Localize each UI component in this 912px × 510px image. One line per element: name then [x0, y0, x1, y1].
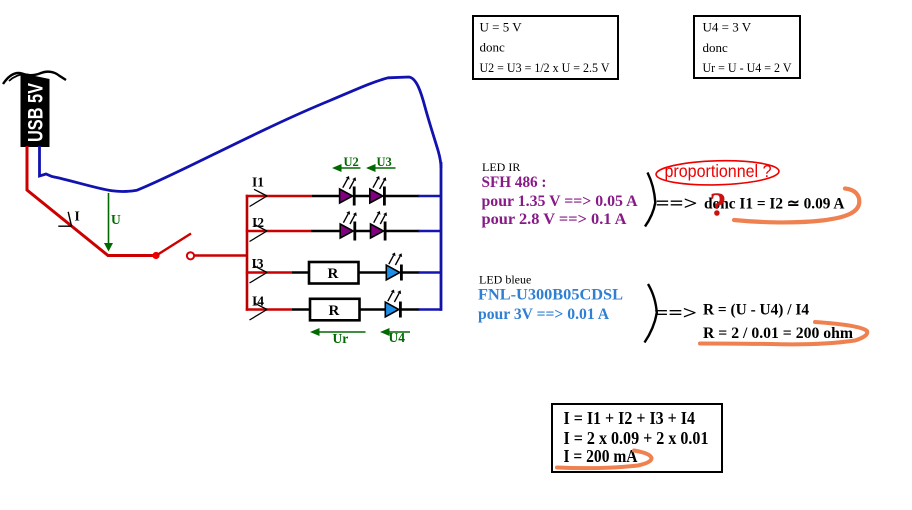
wire red from USB plug — [27, 146, 157, 256]
wire red branch I2 — [246, 230, 311, 232]
svg-text:Ur = U - U4 = 2 V: Ur = U - U4 = 2 V — [703, 60, 793, 75]
orange swoosh I1I2 — [734, 189, 859, 223]
svg-text:R: R — [328, 266, 339, 282]
svg-text:pour 2.8 V ==> 0.1 A: pour 2.8 V ==> 0.1 A — [482, 211, 627, 228]
svg-text:I1: I1 — [252, 175, 264, 190]
svg-text:U2 = U3 = 1/2 x U = 2.5 V: U2 = U3 = 1/2 x U = 2.5 V — [480, 60, 611, 75]
current arrow I1 — [250, 189, 268, 206]
wire black R2 to LED — [360, 308, 388, 310]
svg-text:proportionnel ?: proportionnel ? — [665, 161, 772, 181]
voltage arrow U2 — [332, 164, 361, 172]
svg-text:==>: ==> — [656, 194, 698, 215]
wire black after LED I3 — [403, 271, 420, 273]
svg-text:USB 5V: USB 5V — [25, 83, 48, 142]
wire black after LEDs I2 — [385, 230, 420, 232]
wire black after LED I4 — [402, 308, 420, 310]
switch closed contact dot — [152, 252, 159, 259]
svg-text:LED bleue: LED bleue — [479, 273, 531, 287]
current arrow I2 — [250, 224, 268, 241]
note box U=5V — [473, 16, 618, 79]
current arrow I — [58, 212, 71, 226]
wire red switch to bus — [195, 254, 249, 257]
LED IR D4 — [371, 211, 388, 241]
svg-text:donc: donc — [480, 40, 506, 55]
LED IR D1 — [340, 176, 357, 206]
wire black R1 to LED — [359, 271, 388, 273]
svg-text:R = 2 / 0.01 = 200 ohm: R = 2 / 0.01 = 200 ohm — [703, 325, 854, 342]
wire blue right I3 — [419, 271, 443, 273]
wire blue right I2 — [419, 230, 443, 232]
svg-text:SFH 486 :: SFH 486 : — [482, 174, 547, 191]
resistor R1 — [309, 262, 359, 284]
wire black branch I2 — [311, 230, 341, 232]
LED bleue D5 — [386, 253, 403, 281]
result box I total — [552, 404, 722, 472]
wire red branch I3 — [246, 271, 292, 273]
wire blue right I4 — [419, 308, 443, 310]
brace bleue — [645, 284, 657, 343]
svg-text:I = 200 mA: I = 200 mA — [564, 446, 638, 466]
usb cable sketch — [3, 72, 66, 84]
voltage arrow U — [104, 193, 113, 252]
svg-text:U2: U2 — [344, 155, 359, 169]
LED IR D3 — [340, 211, 357, 241]
svg-text:donc: donc — [703, 40, 729, 55]
resistor R2 — [310, 299, 360, 321]
wire black between LEDs I2 — [355, 230, 372, 232]
svg-text:I = I1 + I2 + I3 + I4: I = I1 + I2 + I3 + I4 — [564, 408, 696, 428]
wire red branch I1 — [246, 195, 312, 197]
svg-text:I: I — [75, 209, 80, 224]
wire black between LEDs I1 — [354, 195, 372, 197]
note box U4=3V — [694, 16, 800, 78]
svg-text:==>: ==> — [654, 303, 697, 324]
wire black branch I4 to resistor — [292, 308, 311, 310]
voltage arrow U3 — [366, 164, 396, 172]
svg-text:I4: I4 — [252, 294, 264, 309]
svg-text:U4 = 3 V: U4 = 3 V — [703, 20, 752, 35]
svg-text:pour 3V ==> 0.01 A: pour 3V ==> 0.01 A — [478, 306, 609, 323]
svg-text:I = 2 x 0.09 + 2 x 0.01: I = 2 x 0.09 + 2 x 0.01 — [564, 428, 709, 448]
wire blue right I1 — [419, 195, 443, 197]
voltage arrow U4 — [380, 328, 410, 336]
svg-text:R = (U - U4) / I4: R = (U - U4) / I4 — [703, 302, 809, 319]
voltage arrow Ur — [310, 328, 366, 336]
current arrow I3 — [250, 266, 268, 283]
svg-text:R: R — [329, 303, 340, 319]
red ellipse proportionnel — [656, 159, 780, 186]
wire black after LEDs I1 — [385, 195, 420, 197]
wire black branch I1 — [312, 195, 341, 197]
svg-text:FNL-U300B05CDSL: FNL-U300B05CDSL — [478, 287, 623, 304]
svg-text:U4: U4 — [389, 330, 406, 345]
wire red branch I4 — [246, 308, 292, 310]
switch lever — [157, 234, 191, 256]
svg-text:?: ? — [710, 187, 727, 224]
current arrow I4 — [250, 303, 268, 320]
red bus vertical — [246, 195, 249, 311]
svg-text:U3: U3 — [377, 155, 392, 169]
orange swoosh I=200mA — [557, 451, 652, 469]
svg-text:pour 1.35 V ==> 0.05 A: pour 1.35 V ==> 0.05 A — [482, 193, 638, 210]
svg-text:U = 5 V: U = 5 V — [480, 20, 523, 35]
switch open terminal — [187, 252, 194, 259]
svg-text:U: U — [111, 212, 121, 227]
svg-text:I3: I3 — [252, 256, 264, 271]
wire blue return from USB — [40, 77, 442, 192]
wire black branch I3 to resistor — [292, 271, 310, 273]
USB 5V plug — [21, 73, 50, 147]
LED bleue D6 — [385, 290, 402, 318]
LED IR D2 — [370, 176, 387, 206]
orange swoosh R — [700, 322, 867, 344]
blue bus vertical — [440, 162, 443, 311]
svg-text:LED IR: LED IR — [482, 160, 520, 174]
brace IR — [645, 173, 655, 227]
svg-text:I2: I2 — [252, 215, 264, 230]
svg-text:Ur: Ur — [333, 331, 349, 346]
